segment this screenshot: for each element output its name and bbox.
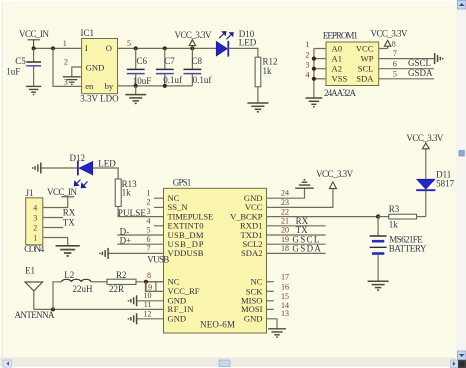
svg-text:C6: C6 (137, 56, 148, 66)
ground below battery (368, 281, 389, 290)
svg-text:10: 10 (144, 291, 152, 300)
resistor R13 (115, 179, 137, 206)
svg-text:C5: C5 (15, 56, 26, 66)
svg-text:VCC_IN: VCC_IN (19, 29, 50, 39)
svg-text:RX: RX (63, 207, 76, 217)
power port VCC_3.3V (EEPROM) (371, 29, 409, 49)
svg-text:GSDA: GSDA (408, 68, 433, 78)
resistor R3 1k (378, 204, 426, 229)
regulator IC1 3.3V LDO (80, 28, 119, 104)
wire R2 to GPS pin8 (136, 281, 164, 283)
power port VCC_3.3V (GPS VCC) (316, 169, 354, 188)
GPS module GPS1 NEO-6M (164, 178, 267, 333)
pin number 9 (GPS VCC_RF) in box (145, 282, 156, 292)
svg-text:1: 1 (33, 233, 37, 242)
svg-text:GPS1: GPS1 (173, 178, 192, 188)
battery MS621FE (370, 217, 427, 281)
junction at C7 (163, 46, 167, 50)
svg-text:4: 4 (33, 203, 37, 212)
svg-text:VCC_3.3V: VCC_3.3V (406, 133, 444, 143)
svg-text:3: 3 (64, 77, 68, 86)
LED D10 (216, 29, 257, 57)
ground below C6 (125, 86, 146, 104)
svg-text:SDA2: SDA2 (241, 248, 263, 258)
svg-text:6: 6 (147, 235, 151, 244)
svg-text:A1: A1 (332, 53, 343, 63)
svg-text:CON4: CON4 (24, 244, 45, 254)
svg-text:R12: R12 (263, 57, 278, 67)
wire 3.3V output rail (118, 47, 217, 49)
wire EN tap (53, 48, 82, 86)
svg-text:6: 6 (393, 59, 397, 68)
junction battery tap (376, 214, 380, 218)
wire GPS pin13 to ground (267, 319, 278, 329)
junction at C5 (32, 46, 36, 50)
wire pin8 to pin9 (VCC_RF) (146, 282, 164, 292)
wire GPS pin23 to VCC (267, 189, 333, 208)
capacitor C5 (6, 48, 41, 85)
svg-text:3.3V LDO: 3.3V LDO (80, 93, 119, 103)
diode D11 5817 (416, 170, 454, 191)
power port VCC_IN (J1) (47, 187, 78, 197)
svg-text:18: 18 (281, 244, 289, 253)
capacitor C7 (156, 48, 182, 86)
svg-text:1: 1 (306, 40, 310, 49)
svg-text:20: 20 (281, 226, 289, 235)
svg-text:2: 2 (147, 198, 151, 207)
ground below R12 (247, 103, 268, 112)
ground left of D12 (rotated) (33, 163, 41, 174)
svg-text:GND: GND (168, 314, 187, 324)
svg-text:5: 5 (393, 69, 397, 78)
svg-text:O: O (106, 43, 112, 53)
svg-text:L2: L2 (64, 270, 74, 280)
svg-text:3: 3 (33, 213, 37, 222)
svg-text:5817: 5817 (436, 178, 455, 188)
svg-text:I: I (85, 43, 88, 53)
svg-text:13: 13 (281, 309, 289, 318)
ground below C5 (26, 86, 41, 94)
power port VCC_IN (19, 29, 50, 49)
svg-text:LED: LED (239, 38, 257, 48)
svg-text:D+: D+ (120, 236, 132, 246)
svg-text:1: 1 (63, 39, 67, 48)
svg-text:1k: 1k (263, 66, 273, 76)
wire net RX (GPS pin21) (267, 225, 326, 227)
svg-text:E1: E1 (25, 266, 35, 276)
svg-text:VCC_3.3V: VCC_3.3V (371, 29, 409, 39)
connector J1 CON4 (24, 188, 45, 254)
svg-text:WP: WP (361, 53, 374, 63)
ground at VUSB wire (rotated) (100, 248, 108, 259)
ground at GPS pin10 (rotated) (129, 295, 137, 306)
ground at WP (rotated) (435, 53, 443, 64)
svg-text:BATTERY: BATTERY (389, 244, 427, 254)
svg-text:VUSB: VUSB (147, 254, 169, 264)
wire gnd to D12 (41, 167, 77, 169)
ground at GPS pin12 (rotated) (129, 313, 137, 324)
svg-text:1uF: 1uF (6, 66, 20, 76)
wire R3 up to D11 (425, 191, 427, 217)
junction EEPROM pin4 (312, 77, 316, 81)
wire net GSCL (GPS pin19) (267, 243, 326, 245)
svg-text:1k: 1k (122, 188, 132, 198)
wire net VUSB (GPS pin7) (109, 252, 164, 254)
inductor L2 22uH (62, 270, 94, 294)
svg-text:GND: GND (244, 314, 263, 324)
svg-text:23: 23 (281, 198, 289, 207)
wire net TX (GPS pin20) (267, 234, 326, 236)
wire GPS pin24 to ground (267, 188, 305, 198)
svg-text:by: by (105, 81, 114, 91)
svg-text:3: 3 (147, 207, 151, 216)
vertical scrollbar (456, 0, 466, 368)
svg-text:VDDUSB: VDDUSB (168, 248, 204, 258)
junction antenna/L2 (51, 307, 55, 311)
junction at C6 (134, 46, 138, 50)
wire D10 to R12 (228, 48, 258, 57)
svg-text:1k: 1k (389, 219, 399, 229)
svg-text:VCC_3.3V: VCC_3.3V (175, 30, 213, 40)
svg-text:4: 4 (147, 216, 151, 225)
svg-text:19: 19 (281, 235, 289, 244)
ground below EEPROM (306, 98, 323, 107)
resistor R2 22R (107, 270, 136, 294)
junction C7 bottom (163, 84, 167, 88)
svg-text:17: 17 (281, 273, 289, 282)
wire antenna to RF_IN (GPS pin11) (34, 308, 164, 310)
ground above GPS pin24 (inverted) (295, 180, 313, 188)
svg-text:NC: NC (251, 277, 263, 287)
svg-text:5: 5 (147, 226, 151, 235)
svg-text:24AA32A: 24AA32A (324, 88, 357, 98)
svg-text:0.1uf: 0.1uf (193, 75, 212, 85)
wire D11 to VCC (425, 149, 427, 179)
svg-text:C8: C8 (192, 56, 203, 66)
capacitor C8 (184, 48, 212, 86)
power port VCC_3.3V (regulator output) (175, 30, 213, 49)
wire net D- (GPS pin5) (117, 234, 163, 236)
svg-text:VSS: VSS (332, 74, 348, 84)
svg-text:LED: LED (98, 158, 116, 168)
LED D12 (70, 153, 117, 188)
horizontal scrollbar (0, 357, 458, 367)
svg-text:R3: R3 (389, 204, 400, 214)
svg-text:VCC: VCC (356, 43, 374, 53)
svg-text:GSDA: GSDA (292, 244, 321, 254)
svg-text:8: 8 (147, 271, 151, 280)
svg-text:GND: GND (86, 63, 105, 73)
svg-text:NEO-6M: NEO-6M (200, 319, 235, 329)
svg-text:2: 2 (33, 223, 37, 232)
svg-text:C7: C7 (164, 56, 175, 66)
wire net TX (J1 pin2) (43, 227, 63, 229)
ground below GPS pin13 (268, 329, 286, 337)
wire net RX (J1 pin3) (43, 217, 63, 219)
svg-text:VCC_3.3V: VCC_3.3V (316, 169, 354, 179)
svg-text:1: 1 (147, 189, 151, 198)
wire net GSDA (379, 78, 434, 80)
svg-text:A2: A2 (332, 64, 343, 74)
ground at IC1 pin 2 (63, 77, 81, 84)
antenna E1 (15, 266, 56, 320)
svg-text:SCL: SCL (358, 64, 374, 74)
resistor R12 (255, 57, 277, 87)
wire net GSCL (379, 68, 434, 70)
wire J1 pin4 to VCC_IN (43, 197, 68, 208)
svg-text:GSCL: GSCL (408, 58, 431, 68)
wire L2 to R2 (91, 281, 107, 283)
wire up to L2 (53, 282, 62, 310)
svg-text:PULSE: PULSE (118, 208, 146, 218)
svg-text:22uH: 22uH (73, 284, 94, 294)
svg-text:3: 3 (306, 60, 310, 69)
svg-text:12: 12 (144, 309, 152, 318)
wire VCC_IN rail (34, 47, 82, 49)
svg-text:2: 2 (306, 50, 310, 59)
svg-text:TX: TX (63, 217, 75, 227)
junction at EN tap (51, 46, 55, 50)
svg-text:7: 7 (393, 49, 397, 58)
junction at pin8/pin9 tie (144, 280, 148, 284)
wire net PULSE (118, 206, 163, 216)
junction EEPROM pin2 (312, 57, 316, 61)
wire net D+ (GPS pin6) (117, 243, 163, 245)
EEPROM EEPROM1 24AA32A (323, 30, 379, 98)
power port VCC_3.3V (D11) (406, 133, 444, 149)
GPS right pin stubs (267, 282, 274, 310)
svg-text:5: 5 (127, 39, 131, 48)
wire net GSDA (GPS pin18) (267, 252, 326, 254)
svg-text:4: 4 (306, 71, 310, 80)
svg-text:SDA: SDA (356, 74, 374, 84)
svg-text:2: 2 (64, 57, 68, 66)
svg-text:16: 16 (281, 283, 289, 292)
junction EEPROM pin3 (312, 67, 316, 71)
svg-text:R2: R2 (116, 270, 127, 280)
svg-text:8: 8 (392, 39, 396, 48)
wire EEPROM address pins to ground bus (314, 49, 326, 98)
svg-text:ANTENNA: ANTENNA (15, 310, 56, 320)
junction at C8/VCC (190, 46, 194, 50)
junction C6 bottom (134, 84, 138, 88)
ground below J1 (56, 246, 80, 256)
svg-text:J1: J1 (26, 188, 34, 198)
svg-text:11: 11 (144, 300, 152, 309)
wire bypass ground rail (118, 85, 193, 87)
svg-text:7: 7 (147, 244, 151, 253)
svg-text:24: 24 (281, 189, 289, 198)
svg-text:NC: NC (168, 277, 180, 287)
capacitor C6 (127, 48, 152, 86)
wire D12 to R13 (93, 168, 118, 179)
wire EEPROM WP to ground (379, 58, 434, 60)
GPS left pin stubs (137, 198, 164, 319)
svg-text:0.1uf: 0.1uf (163, 75, 182, 85)
svg-text:A0: A0 (332, 43, 343, 53)
svg-text:22: 22 (281, 207, 289, 216)
svg-text:en: en (85, 81, 94, 91)
wire J1 pin1 to ground (43, 238, 68, 246)
wire net V_BCKP to R3 and battery (267, 216, 379, 218)
svg-text:VCC_IN: VCC_IN (47, 187, 78, 197)
wire R12 to ground (257, 87, 259, 103)
svg-text:22R: 22R (109, 284, 124, 294)
svg-text:21: 21 (281, 217, 289, 226)
svg-text:EEPROM1: EEPROM1 (323, 30, 358, 40)
svg-text:15: 15 (281, 292, 289, 301)
svg-text:IC1: IC1 (81, 28, 95, 38)
